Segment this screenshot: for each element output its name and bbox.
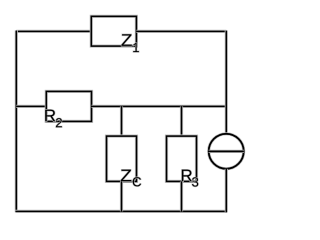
label Z of Z1 [121, 34, 131, 46]
label R of R3 [182, 170, 192, 182]
wire: left rail [15, 31, 18, 213]
label R of R2 [45, 110, 55, 122]
label subscript C of Zc [133, 177, 141, 186]
wire: top-left segment, left rail to Z1 [16, 30, 91, 33]
wire: right rail upper segment [225, 31, 228, 134]
wire: branch from middle wire down to Zc [120, 106, 123, 136]
label subscript 2 of R2 [56, 118, 62, 127]
label subscript 3 of R3 [192, 177, 198, 186]
wire: R3 to bottom rail [180, 181, 183, 211]
wire: branch from middle wire down to R3 [180, 106, 183, 136]
wire: top-right segment, Z1 to right rail [136, 30, 226, 33]
wire: middle-left segment, left rail to R2 [16, 105, 46, 108]
wire: Zc to bottom rail [120, 181, 123, 211]
current source I1: horizontal bar [209, 150, 244, 153]
label subscript 1 of Z1 [133, 43, 139, 52]
resistor R3 (box) [167, 136, 197, 181]
current source I1: circle [209, 134, 244, 169]
impedance Zc (box) [107, 136, 137, 181]
wire: right rail lower segment [225, 169, 228, 212]
wire: bottom rail [15, 210, 227, 213]
label Z of Zc [121, 170, 132, 182]
resistor R2 (box) [46, 91, 91, 121]
impedance Z1 (box) [91, 16, 136, 46]
wire: middle segment, R2 to right rail [92, 105, 227, 108]
